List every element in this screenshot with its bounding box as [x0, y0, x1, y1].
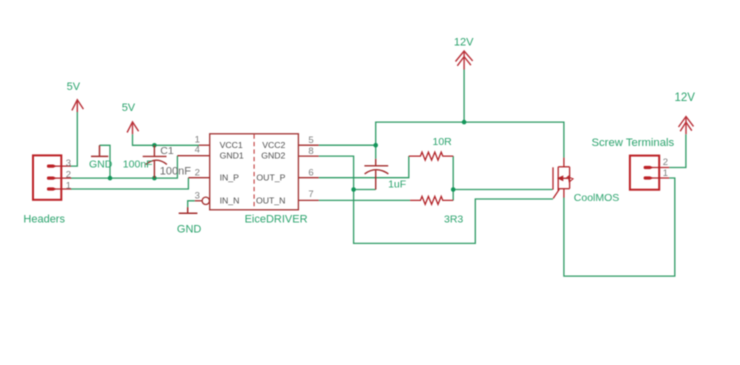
svg-text:GND: GND: [177, 224, 202, 236]
svg-text:8: 8: [308, 146, 313, 157]
svg-text:Headers: Headers: [23, 214, 65, 226]
svg-text:3R3: 3R3: [444, 214, 463, 226]
svg-text:GND1: GND1: [220, 151, 244, 161]
svg-text:CoolMOS: CoolMOS: [574, 192, 620, 204]
svg-text:5V: 5V: [67, 81, 81, 93]
svg-text:VCC2: VCC2: [262, 140, 285, 150]
svg-text:IN_N: IN_N: [220, 195, 240, 205]
svg-text:EiceDRIVER: EiceDRIVER: [245, 214, 308, 226]
svg-text:1: 1: [663, 168, 668, 179]
svg-text:2: 2: [663, 157, 668, 168]
svg-text:C1: C1: [160, 145, 174, 157]
svg-text:12V: 12V: [675, 92, 696, 104]
svg-text:OUT_P: OUT_P: [256, 173, 285, 183]
svg-text:100nF: 100nF: [160, 165, 191, 177]
svg-text:4: 4: [195, 144, 200, 155]
svg-text:5V: 5V: [122, 102, 136, 114]
svg-text:3: 3: [66, 158, 71, 169]
svg-text:VCC1: VCC1: [220, 140, 243, 150]
svg-text:GND2: GND2: [261, 151, 285, 161]
svg-text:2: 2: [195, 167, 200, 178]
svg-text:7: 7: [308, 189, 313, 200]
svg-text:IN_P: IN_P: [220, 173, 240, 183]
svg-text:100nF: 100nF: [123, 158, 153, 170]
svg-text:5: 5: [308, 135, 313, 146]
svg-text:1uF: 1uF: [388, 178, 406, 190]
svg-text:1: 1: [66, 181, 71, 192]
svg-text:2: 2: [66, 170, 71, 181]
svg-text:GND: GND: [89, 158, 113, 170]
svg-text:Screw Terminals: Screw Terminals: [592, 137, 675, 149]
svg-text:6: 6: [308, 167, 313, 178]
svg-text:12V: 12V: [454, 36, 474, 48]
svg-text:10R: 10R: [433, 136, 453, 148]
svg-text:OUT_N: OUT_N: [256, 195, 285, 205]
svg-text:3: 3: [195, 190, 200, 201]
